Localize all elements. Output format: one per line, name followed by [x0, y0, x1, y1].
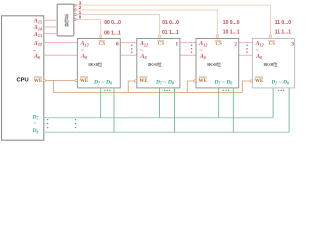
chip2 D7 drop wire — [218, 88, 220, 118]
chip0 CS label — [98, 41, 105, 47]
wire decoder out3 to chip3 CS — [76, 5, 270, 35]
svg-text:8K×8位: 8K×8位 — [264, 61, 278, 67]
svg-text:10 1...1: 10 1...1 — [223, 29, 240, 35]
svg-text:3: 3 — [291, 41, 294, 47]
svg-text:0: 0 — [116, 41, 119, 47]
chip3 CS bubble — [269, 35, 271, 37]
svg-text:A15: A15 — [33, 19, 42, 25]
svg-text:10 0...0: 10 0...0 — [223, 20, 240, 26]
wire A0 segment chip0-chip1 — [120, 54, 137, 56]
decoder output bubble 2 — [74, 9, 76, 11]
data bus dots near CPU — [47, 119, 48, 128]
decoder U1 — [57, 4, 74, 36]
data bus dots under decoder — [75, 119, 76, 128]
address continuation dots chip1-chip2 — [191, 45, 192, 53]
wire WE bus — [53, 92, 242, 94]
chip0 data dots — [104, 90, 110, 91]
wire decoder out2 to chip2 CS — [76, 10, 217, 35]
svg-text:A0: A0 — [33, 54, 41, 60]
wire A13 CPU to decoder — [44, 33, 57, 35]
chip2 data dots — [223, 90, 229, 91]
chip3 data dots — [278, 90, 284, 91]
chip1 CS label — [157, 41, 164, 47]
chip0 WE bubble — [75, 79, 77, 81]
wire A0 segment chip2-chip3 — [239, 54, 253, 56]
wire A12 segment chip1-chip2 — [180, 42, 196, 44]
chip0 WE label — [80, 77, 89, 84]
wire A0 segment chip1-chip2 — [180, 54, 196, 56]
svg-text:A12: A12 — [33, 41, 42, 47]
chip3 WE bubble — [250, 80, 252, 82]
chip3 CS label — [268, 41, 275, 47]
svg-text:CS: CS — [215, 42, 222, 47]
chip1 D0 drop wire — [174, 88, 176, 132]
memory chip 3 — [252, 39, 294, 88]
svg-text:CS: CS — [269, 42, 276, 47]
wire WE CPU to chip0 — [46, 79, 76, 81]
wire A0 segment CPU-chip0 — [44, 54, 78, 56]
wire decoder out0 to chip0 CS — [76, 19, 100, 35]
memory chip 1 — [137, 39, 180, 88]
chip3 D7 drop wire — [272, 88, 274, 118]
chip2 WE bubble — [194, 80, 196, 82]
decoder label — [64, 13, 69, 28]
svg-text:A12: A12 — [198, 41, 207, 47]
svg-text:A0: A0 — [140, 54, 148, 60]
svg-text:CS: CS — [158, 42, 165, 47]
svg-text:~: ~ — [33, 120, 36, 126]
svg-text:01 0...0: 01 0...0 — [162, 20, 179, 26]
decoder output bubble 0 — [74, 18, 76, 20]
chip3 D0 drop wire — [288, 88, 290, 132]
wire D0 bus — [44, 131, 289, 133]
chip3 WE label — [255, 77, 264, 84]
svg-text:8K×8位: 8K×8位 — [148, 61, 162, 67]
svg-text:A14: A14 — [33, 25, 42, 31]
address continuation dots chip0-chip1 — [131, 45, 132, 53]
chip2 D0 drop wire — [232, 88, 234, 132]
svg-text:WE: WE — [255, 79, 264, 84]
svg-text:1: 1 — [175, 41, 178, 47]
chip2 CS bubble — [216, 35, 218, 37]
wire A12 segment chip0-chip1 — [120, 42, 137, 44]
svg-text:WE: WE — [139, 79, 148, 84]
svg-text:A0: A0 — [80, 54, 88, 60]
wire D7 bus — [44, 117, 273, 119]
svg-text:8K×8位: 8K×8位 — [88, 61, 102, 67]
svg-text:00 1...1: 00 1...1 — [104, 31, 121, 37]
svg-text:A0: A0 — [255, 54, 263, 60]
CPU WE bubble — [43, 79, 45, 81]
svg-text:CS: CS — [99, 42, 106, 47]
svg-text:A13: A13 — [33, 32, 42, 38]
svg-text:D7 ~ D0: D7 ~ D0 — [93, 80, 112, 86]
svg-text:11 0...0: 11 0...0 — [275, 20, 292, 26]
svg-text:WE: WE — [80, 79, 89, 84]
svg-text:WE: WE — [34, 79, 43, 84]
svg-text:01 1...1: 01 1...1 — [162, 30, 179, 36]
wire WE riser chip2 — [187, 81, 193, 93]
chip1 WE bubble — [135, 80, 137, 82]
wire WE riser chip1 — [128, 81, 134, 93]
svg-text:00 0...0: 00 0...0 — [104, 20, 121, 26]
svg-text:D7 ~ D0: D7 ~ D0 — [214, 80, 233, 86]
wire A15 CPU to decoder — [44, 19, 57, 21]
svg-text:D7 ~ D0: D7 ~ D0 — [155, 80, 174, 86]
CPU box — [2, 16, 44, 140]
chip0 D0 drop wire — [113, 88, 115, 132]
svg-text:A12: A12 — [80, 41, 89, 47]
memory chip 0 — [77, 39, 120, 88]
svg-text:8K×8位: 8K×8位 — [207, 61, 221, 67]
svg-text:WE: WE — [199, 79, 208, 84]
chip0 CS bubble — [100, 35, 102, 37]
wire A14 CPU to decoder — [44, 26, 57, 28]
svg-text:2: 2 — [234, 41, 237, 47]
decoder output bubble 1 — [74, 14, 76, 16]
wire A12 segment CPU-chip0 — [44, 42, 78, 44]
svg-text:A12: A12 — [139, 41, 148, 47]
svg-text:CPU: CPU — [17, 78, 29, 84]
svg-text:D7 ~ D0: D7 ~ D0 — [271, 80, 290, 86]
chip1 CS bubble — [158, 35, 160, 37]
wire WE tap down — [53, 80, 55, 92]
chip1 D7 drop wire — [159, 88, 161, 118]
svg-text:11 1...1: 11 1...1 — [275, 29, 292, 35]
wire WE riser chip3 — [242, 81, 250, 93]
wire A12 segment chip2-chip3 — [239, 42, 253, 44]
address continuation dots chip2-chip3 — [246, 45, 247, 53]
chip2 CS label — [215, 41, 222, 47]
chip1 WE label — [139, 77, 148, 84]
chip2 WE label — [199, 77, 208, 84]
chip0 D7 drop wire — [100, 88, 102, 118]
decoder output bubble 3 — [74, 4, 76, 6]
memory chip 2 — [196, 39, 239, 88]
chip1 data dots — [164, 90, 170, 91]
wire decoder out1 to chip1 CS — [76, 15, 159, 35]
svg-text:A0: A0 — [199, 54, 207, 60]
CPU WE label — [34, 77, 43, 84]
svg-text:A12: A12 — [255, 41, 264, 47]
